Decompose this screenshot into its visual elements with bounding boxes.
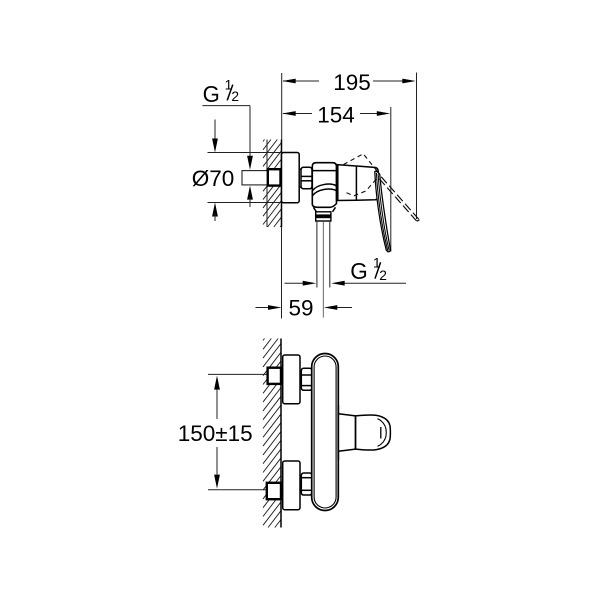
svg-text:154: 154 xyxy=(317,102,355,127)
svg-text:59: 59 xyxy=(288,296,313,321)
svg-text:Ø70: Ø70 xyxy=(192,166,235,191)
svg-text:2: 2 xyxy=(231,89,239,104)
svg-text:G: G xyxy=(203,81,220,107)
svg-text:2: 2 xyxy=(379,268,387,283)
svg-text:150±15: 150±15 xyxy=(178,421,253,446)
svg-text:G: G xyxy=(350,258,368,284)
svg-text:195: 195 xyxy=(333,70,371,95)
